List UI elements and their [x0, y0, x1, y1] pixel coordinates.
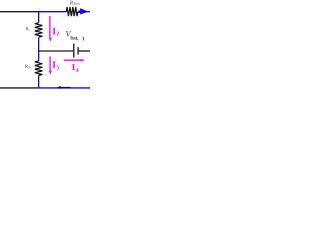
wire: top wire blue segment to resistor R_bcs	[38, 11, 66, 13]
resistor R_bcs (top, horizontal zigzag)	[66, 7, 78, 16]
wire: bottom wire black left segment	[0, 87, 38, 89]
wire: bottom wire blue segment	[38, 87, 90, 89]
arrow I_2 (magenta, down)	[49, 16, 51, 38]
resistor R_cb (lower left, vertical zigzag)	[35, 61, 43, 75]
wire: top wire blue segment right of resistor	[78, 11, 90, 13]
resistor R_c (upper left, vertical zigzag)	[35, 23, 43, 37]
wire: left vertical blue branch	[38, 12, 40, 88]
label R_cb	[25, 64, 31, 68]
label I_5	[53, 61, 60, 69]
label R_c	[25, 27, 29, 31]
wire: top wire black left segment	[0, 11, 38, 13]
arrow I_4 (magenta, right)	[64, 59, 81, 61]
arrow I_5 (magenta, down)	[49, 57, 51, 72]
battery cell V_bat,1: short plate	[77, 47, 79, 55]
label V_bat,1	[66, 31, 85, 40]
arrow i_batt (blue, fat, pointing right at top-right)	[78, 11, 81, 13]
wire: middle wire black right of cell	[79, 50, 90, 52]
arrow return current (dark navy, pointing left on bottom wire)	[61, 87, 71, 88]
wire: middle wire black from left branch to cell	[39, 50, 74, 52]
label I_4	[72, 64, 79, 72]
label I_2	[53, 28, 59, 36]
label R_bcs	[70, 1, 80, 5]
battery cell V_bat,1: long plate	[73, 44, 75, 58]
